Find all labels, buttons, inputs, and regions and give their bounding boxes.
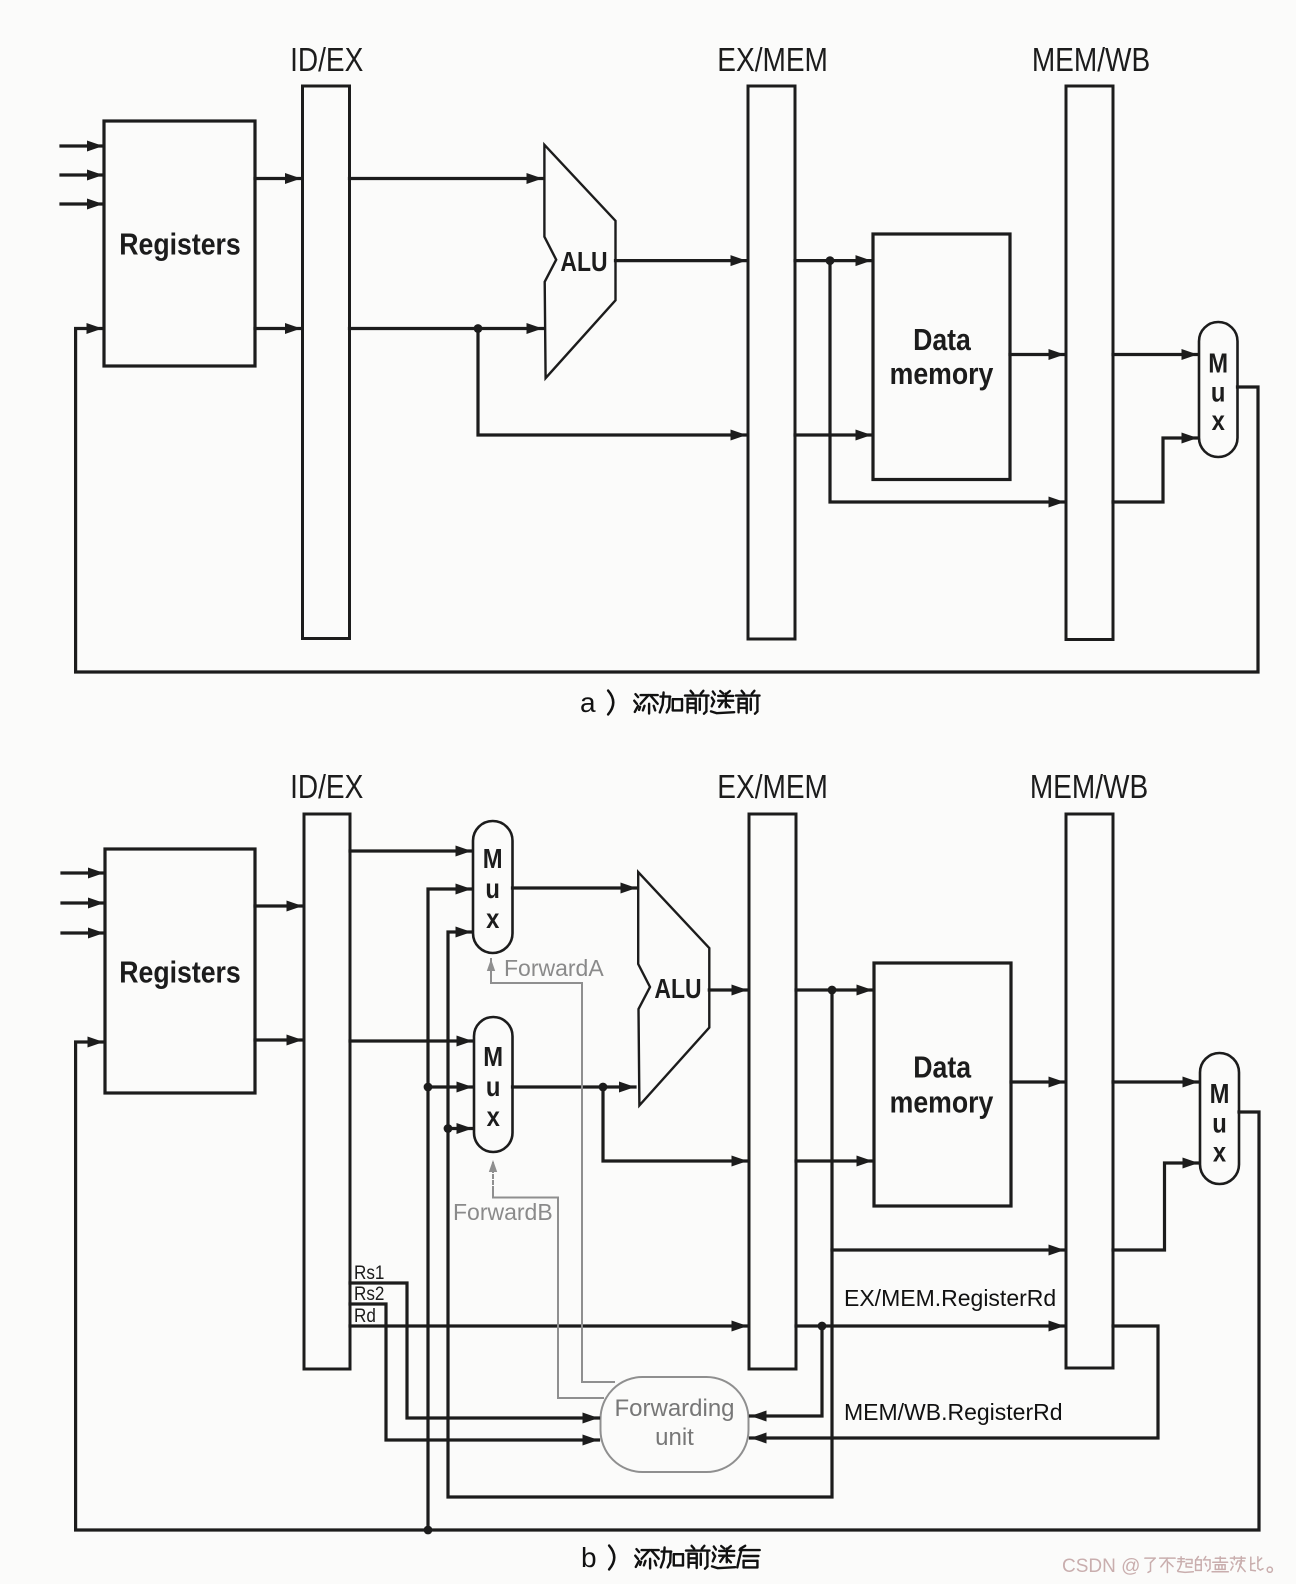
svg-text:M: M (1208, 347, 1228, 379)
svg-text:ALU: ALU (654, 974, 701, 1005)
wire EX/MEM ALU result to Data memory address (a) (795, 255, 872, 266)
caption b paren (609, 1546, 614, 1570)
wire EX/MEM.RegisterRd down to Forwarding unit (b) (751, 1326, 823, 1422)
svg-text:ID/EX: ID/EX (290, 42, 363, 79)
forwarding unit (b) (601, 1377, 749, 1472)
svg-text:Rs2: Rs2 (354, 1283, 384, 1304)
wire ALU result branch to MEM/WB (b) (832, 1245, 1065, 1256)
svg-text:M: M (483, 842, 503, 874)
svg-text:memory: memory (890, 1086, 994, 1120)
wire read input 1 into Registers (b) (62, 868, 104, 879)
wire ID/EX to ALU upper input (a) (350, 173, 543, 184)
junction writeback to forward vertical (b) (424, 1526, 433, 1535)
wire read input 2 into Registers (a) (61, 170, 103, 181)
wire EX/MEM to Data memory write data (b) (796, 1156, 873, 1167)
svg-text:Registers: Registers (119, 956, 240, 990)
wire ID/EX to ALU lower input (a) (350, 323, 543, 334)
wire MuxW output writeback loop (b) (76, 1037, 1259, 1531)
svg-text:M: M (483, 1040, 503, 1072)
wire ID/EX to MuxA input 1 (b) (350, 846, 472, 857)
svg-text:M: M (1210, 1077, 1230, 1109)
wire EX/MEM forward branch to MuxB input 3 (b) (448, 1123, 473, 1134)
wire read input 3 into Registers (a) (61, 199, 103, 210)
register file Registers (a) (104, 121, 255, 366)
svg-text:EX/MEM.RegisterRd: EX/MEM.RegisterRd (844, 1285, 1056, 1311)
svg-text:u: u (486, 1070, 501, 1102)
svg-text:b: b (581, 1542, 597, 1573)
wire writeback forward branch to MuxB input 2 (b) (428, 1082, 473, 1093)
wire ALU result down to MEM/WB (a) (830, 261, 1065, 508)
svg-text:x: x (1213, 1136, 1227, 1168)
svg-text:MEM/WB: MEM/WB (1032, 42, 1150, 79)
gray ForwardB select wire corner (493, 1192, 603, 1398)
watermark chinese (1145, 1557, 1273, 1573)
wire ALU operand B down to EX/MEM (b) (603, 1087, 748, 1167)
pipeline register MEM/WB (a) (1066, 86, 1113, 640)
wire MuxB output to ALU lower input (b) (513, 1082, 636, 1093)
svg-text:Registers: Registers (119, 228, 240, 262)
wire Data memory read data to MEM/WB (b) (1011, 1077, 1065, 1088)
wire Rs1 to Forwarding unit (b) (350, 1283, 599, 1424)
svg-text:u: u (485, 872, 500, 904)
mux writeback (b) (1200, 1053, 1239, 1184)
svg-text:MEM/WB.RegisterRd: MEM/WB.RegisterRd (844, 1399, 1063, 1425)
junction EX/MEM.RegisterRd branch (b) (818, 1322, 827, 1331)
svg-text:ID/EX: ID/EX (290, 769, 363, 806)
wire ID/EX to MuxB input 1 (b) (350, 1036, 473, 1047)
svg-text:CSDN @: CSDN @ (1062, 1556, 1140, 1577)
junction writeback forward to MuxB (b) (424, 1083, 433, 1092)
svg-text:ForwardB: ForwardB (453, 1199, 553, 1225)
wire read input 2 into Registers (b) (62, 898, 104, 909)
ALU (b) (638, 872, 709, 1105)
svg-text:memory: memory (890, 357, 994, 391)
junction MuxB output branch (b) (599, 1083, 608, 1092)
svg-text:u: u (1211, 376, 1226, 408)
svg-text:Rs1: Rs1 (354, 1262, 384, 1283)
wire writeback forward vertical to MuxA input 2 (b) (428, 884, 472, 1531)
pipeline register MEM/WB (b) (1066, 814, 1113, 1368)
svg-text:x: x (1212, 404, 1226, 436)
wire Registers read data 1 to ID/EX (a) (255, 173, 301, 184)
wire read input 3 into Registers (b) (62, 928, 104, 939)
caption a paren (608, 691, 613, 715)
svg-text:x: x (487, 1100, 501, 1132)
wire Registers read data 1 to ID/EX (b) (255, 901, 303, 912)
svg-text:Data: Data (913, 323, 972, 357)
svg-text:EX/MEM: EX/MEM (717, 769, 828, 806)
wire ALU result to EX/MEM (a) (616, 255, 747, 266)
pipeline register ID/EX (a) (303, 86, 350, 639)
caption a chinese (634, 691, 759, 714)
wire MEM/WB read data to Mux upper input (a) (1113, 349, 1198, 360)
svg-text:EX/MEM: EX/MEM (717, 42, 828, 79)
ALU (a) (544, 145, 615, 378)
junction ALU result branch (a) (826, 256, 835, 265)
junction EX/MEM forward to MuxB (b) (444, 1124, 453, 1133)
wire MEM/WB ALU result to Mux lower input (a) (1113, 433, 1198, 503)
wire MEM/WB read data to MuxW upper input (b) (1113, 1077, 1199, 1088)
wire MuxA output to ALU upper input (b) (513, 883, 637, 894)
wire ALU result down + EX/MEM forward path (b) (448, 927, 832, 1498)
mux ForwardB (b) (474, 1017, 513, 1152)
pipeline register EX/MEM (a) (748, 86, 795, 639)
pipeline register EX/MEM (b) (749, 814, 796, 1369)
svg-text:ALU: ALU (560, 247, 607, 278)
mux writeback (a) (1199, 322, 1238, 457)
caption b chinese (635, 1546, 759, 1569)
wire Rs2 to Forwarding unit (b) (350, 1304, 599, 1446)
wire Rd to EX/MEM (b) (350, 1321, 748, 1332)
gray ForwardB select arrow (489, 1160, 497, 1196)
mux ForwardA (b) (473, 821, 513, 953)
data memory (a) (873, 234, 1010, 480)
svg-text:ForwardA: ForwardA (504, 955, 604, 981)
register file Registers (b) (105, 849, 255, 1093)
svg-text:u: u (1212, 1107, 1227, 1139)
wire ALU result to EX/MEM (b) (709, 985, 747, 996)
wire read data 2 down to EX/MEM write data (a) (478, 329, 747, 441)
svg-text:unit: unit (655, 1424, 694, 1451)
gray ForwardA select wire (487, 959, 614, 1382)
pipeline register ID/EX (b) (304, 814, 350, 1369)
wire Registers read data 2 to ID/EX (a) (255, 323, 301, 334)
junction ALU result branch (b) (828, 986, 837, 995)
wire EX/MEM.RegisterRd to MEM/WB (b) (796, 1321, 1065, 1332)
svg-text:x: x (486, 902, 500, 934)
svg-text:Rd: Rd (354, 1305, 376, 1326)
wire EX/MEM to Data memory write data (a) (795, 430, 872, 441)
wire Data memory read data to MEM/WB (a) (1010, 349, 1065, 360)
wire MEM/WB ALU result to MuxW lower input (b) (1113, 1158, 1199, 1251)
wire read input 1 into Registers (a) (61, 141, 103, 152)
svg-text:Data: Data (913, 1051, 972, 1085)
wire EX/MEM ALU result to Data memory address (b) (796, 985, 873, 996)
wire Registers read data 2 to ID/EX (b) (255, 1035, 303, 1046)
svg-text:Forwarding: Forwarding (614, 1395, 734, 1422)
junction read data 2 branch (a) (474, 324, 483, 333)
wire MEM/WB.RegisterRd to Forwarding unit (b) (751, 1326, 1159, 1444)
svg-text:a: a (580, 687, 596, 718)
svg-text:MEM/WB: MEM/WB (1030, 769, 1148, 806)
wire Mux output writeback to Registers (a) (76, 323, 1258, 672)
data memory (b) (874, 963, 1011, 1206)
